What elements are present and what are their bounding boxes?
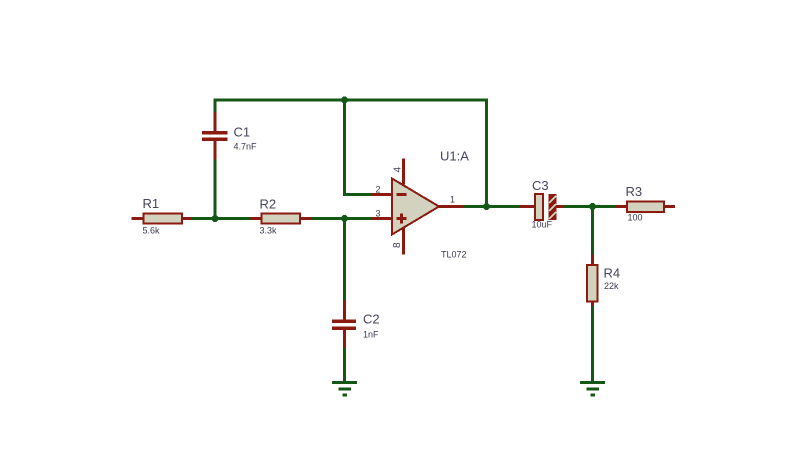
svg-text:C1: C1 [234, 125, 251, 140]
svg-text:1: 1 [450, 194, 455, 204]
svg-text:2: 2 [375, 184, 380, 194]
op-amp U1:A pin 3 lead [371, 217, 393, 220]
resistor R2 [251, 214, 312, 224]
op-amp U1:A pin 8 power lead [402, 228, 405, 255]
wire: R4 bottom vertical to ground [591, 306, 594, 383]
capacitor C1 [202, 112, 228, 160]
svg-text:U1:A: U1:A [440, 149, 469, 164]
op-amp U1:A body [392, 179, 439, 235]
svg-text:3: 3 [375, 208, 380, 218]
svg-text:3.3k: 3.3k [260, 226, 278, 236]
node: junction R1/C1 [212, 215, 219, 222]
node: junction top feedback [341, 97, 348, 104]
svg-text:TL072: TL072 [441, 250, 467, 260]
wire: C2 bottom vertical to ground [343, 348, 346, 383]
svg-text:R3: R3 [626, 184, 643, 199]
wire: C1 top vertical [214, 100, 217, 112]
resistor R4 [587, 255, 598, 307]
svg-text:5.6k: 5.6k [143, 226, 161, 236]
svg-text:R2: R2 [260, 197, 277, 212]
capacitor C2 [332, 300, 356, 348]
op-amp U1:A pin 1 output lead [439, 205, 464, 208]
svg-text:8: 8 [392, 242, 403, 248]
capacitor C3 [520, 194, 564, 220]
wire: C1 bottom vertical to main line [214, 160, 217, 221]
svg-text:1nF: 1nF [363, 330, 379, 340]
wire: C2 top vertical from main line [343, 217, 346, 300]
wire: top feedback horizontal [214, 99, 489, 102]
svg-text:22k: 22k [604, 281, 619, 291]
node: output junction [483, 203, 490, 210]
svg-text:R1: R1 [143, 196, 160, 211]
ground (R4) [580, 381, 605, 397]
op-amp U1:A pin 4 power lead [402, 159, 405, 185]
ground (C2) [332, 381, 357, 397]
wire: right vertical from top to output node [485, 100, 488, 208]
svg-text:100: 100 [628, 213, 643, 223]
svg-text:R4: R4 [604, 266, 621, 281]
svg-text:4.7nF: 4.7nF [234, 142, 258, 152]
wire: R4 top vertical from output node [591, 205, 594, 255]
wire: C3 to R3 node [564, 205, 616, 208]
wire: pin2 horizontal from feedback [343, 193, 371, 196]
svg-text:C2: C2 [363, 312, 380, 327]
svg-text:C3: C3 [532, 178, 549, 193]
wire: feedback vertical to pin2 [343, 99, 346, 197]
svg-text:10uF: 10uF [532, 220, 553, 230]
wire: main line R1 right lead to R2 [192, 217, 251, 220]
node: junction C3/R3/R4 [589, 203, 596, 210]
resistor R3 [616, 202, 675, 213]
node: junction R2/C2/pin3 [341, 215, 348, 222]
wire: output node to C3 [464, 205, 521, 208]
svg-text:4: 4 [393, 167, 404, 173]
op-amp U1:A pin 2 lead [371, 193, 393, 196]
wire: main line R2 right to op-amp pin3 [311, 217, 371, 220]
resistor R1 [132, 214, 193, 224]
